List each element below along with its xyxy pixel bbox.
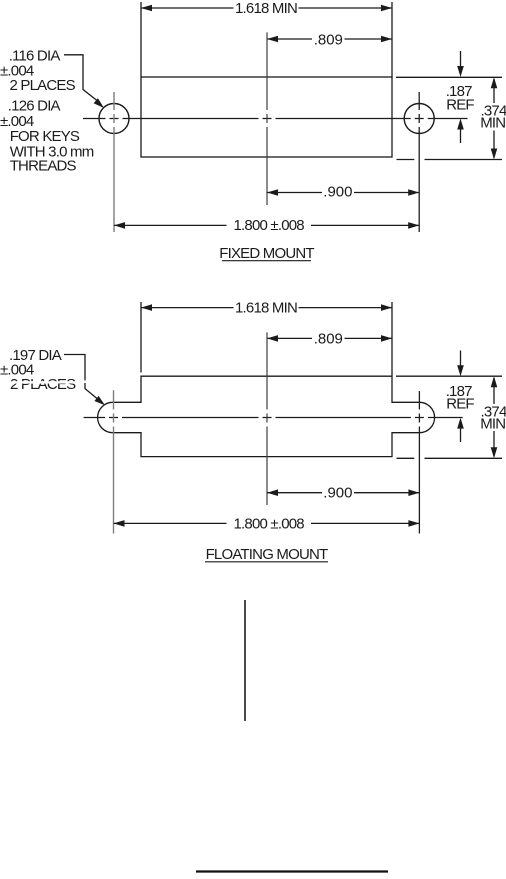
bottom horizontal rule [196,870,388,872]
svg-text:1.618 MIN: 1.618 MIN [235,300,297,317]
cutout outline (floating) [98,376,435,456]
leader .116 DIA (fixed) [64,55,97,101]
svg-text:REF: REF [446,96,474,113]
svg-text:FLOATING MOUNT: FLOATING MOUNT [206,546,328,563]
left hole vertical centerline (floating) [113,390,115,533]
dimension .809 (floating) [267,337,392,339]
vertical center axis (floating) [266,332,268,505]
white strike over 2 PLACES [7,381,80,383]
dimension 1.800 +/-.008 (floating) [114,522,420,524]
dimension .900 (fixed) [267,192,419,194]
dimension .187 REF (floating) [460,351,462,443]
dimension 1.618 MIN (fixed) [141,2,392,77]
svg-text:2 PLACES: 2 PLACES [10,77,76,94]
dimension .374 MIN (fixed) [493,79,495,158]
svg-text:THREADS: THREADS [10,157,77,174]
right hole vertical centerline (floating) [418,391,420,534]
svg-text:MIN: MIN [480,115,505,132]
svg-text:1.800 ±.008: 1.800 ±.008 [234,515,305,532]
right hole circle (fixed) [404,104,434,134]
right hole vertical centerline (fixed) [418,92,420,232]
svg-text:.809: .809 [314,31,343,48]
svg-text:.900: .900 [323,184,352,201]
svg-text:FIXED MOUNT: FIXED MOUNT [219,245,314,262]
vertical line segment [244,600,246,721]
cutout rectangle (fixed) [141,77,392,157]
svg-text:.809: .809 [314,330,343,347]
top/bottom edge extension lines (fixed) [396,77,502,159]
svg-text:MIN: MIN [480,415,505,432]
horizontal centerline (fixed) [83,118,468,120]
svg-text:2 PLACES: 2 PLACES [10,376,76,393]
horizontal centerline (floating) [84,417,463,419]
left hole circle (fixed) [99,104,129,134]
vertical center axis (fixed) [266,32,268,205]
svg-text:1.618 MIN: 1.618 MIN [235,0,297,17]
svg-text:.126 DIA: .126 DIA [8,97,61,114]
svg-text:REF: REF [446,396,474,413]
dimension .374 MIN (floating) [493,378,495,456]
dimension 1.800 +/-.008 (fixed) [114,224,419,226]
leader .197 DIA (floating) [64,355,97,399]
left hole vertical centerline (fixed) [113,92,115,232]
dimension 1.618 MIN (floating) [141,302,392,376]
svg-text:.900: .900 [323,485,352,502]
dimension .187 REF (fixed) [460,51,462,143]
svg-text:1.800 ±.008: 1.800 ±.008 [234,217,305,234]
top/bottom edge extension lines (floating) [396,376,502,458]
dimension .900 (floating) [267,492,419,494]
dimension .809 (fixed) [267,38,392,40]
